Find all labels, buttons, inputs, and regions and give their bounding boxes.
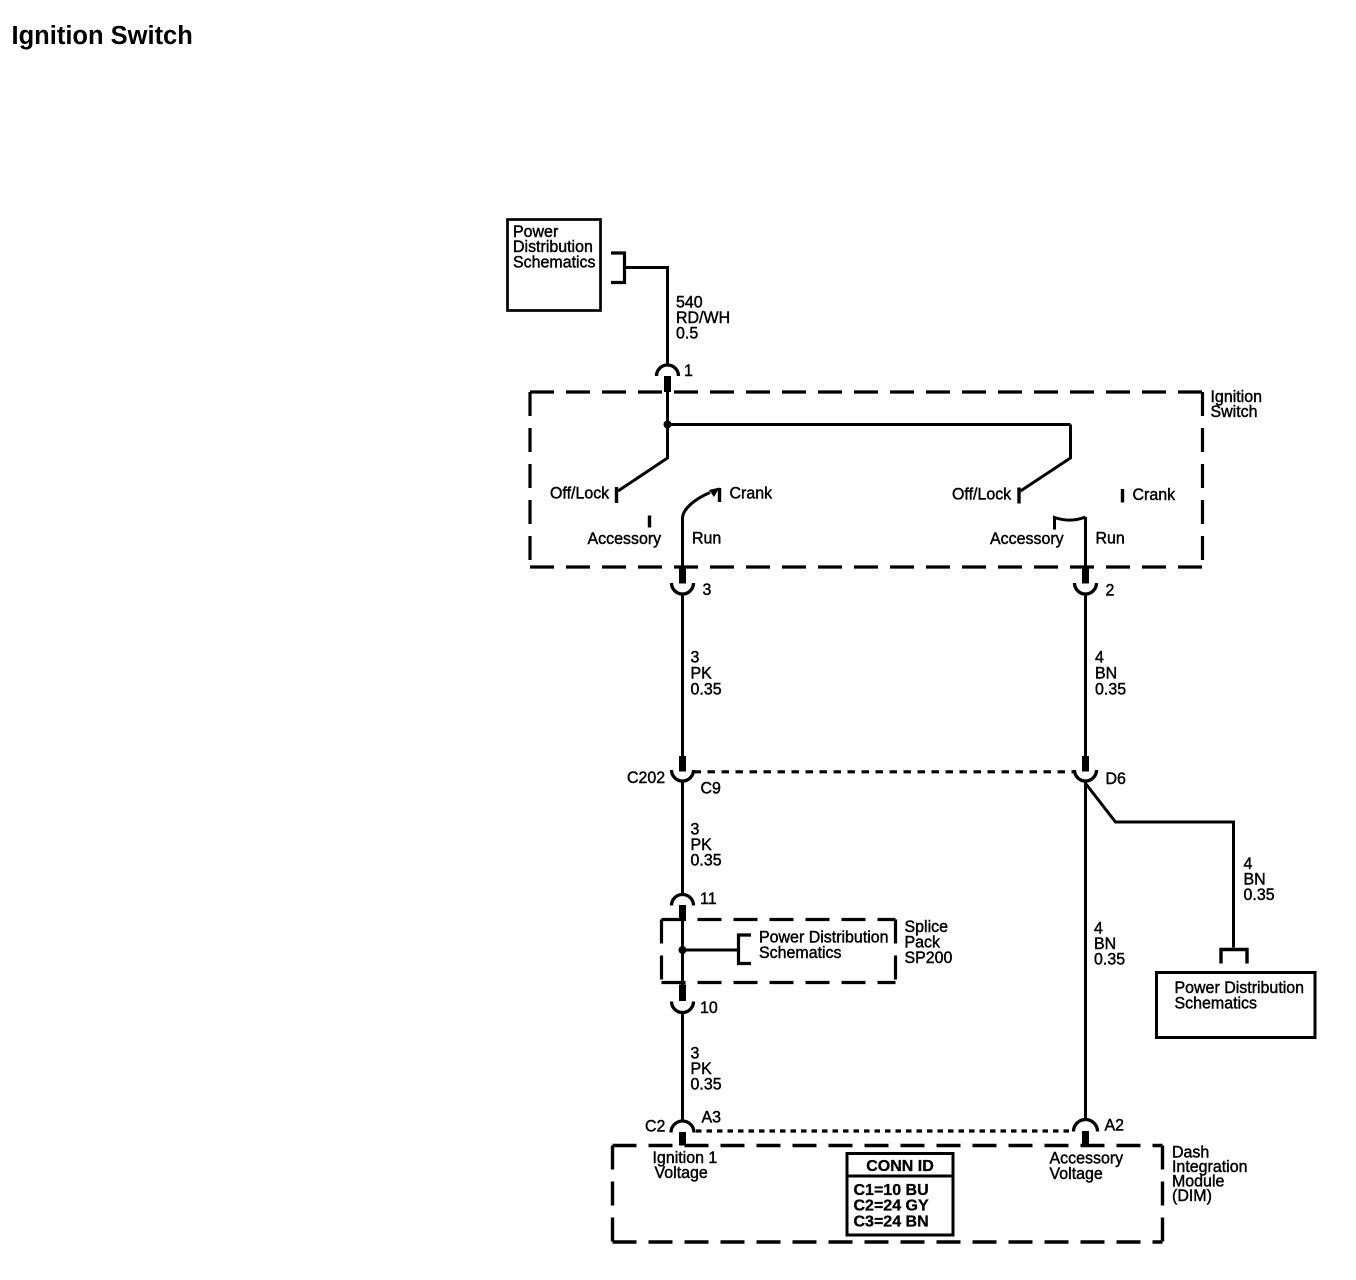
svg-text:Schematics: Schematics [759,944,842,963]
wiper hook toward Accessory (right) [1055,517,1086,530]
off-page connector bracket (splice) [739,935,752,964]
pin D6 male blade [1082,756,1089,772]
wire right half down to right wiper [1021,425,1071,492]
pin A3 male blade [679,1132,686,1146]
value label 3 PK 0.35 (upper) [691,648,722,699]
svg-text:C3=24 BN: C3=24 BN [854,1213,929,1230]
contact Off/Lock (left) [615,487,618,503]
wire 3 PK 0.35 from pin 3 to C202 [681,594,684,756]
connector socket 2 [1075,583,1097,594]
svg-text:Run: Run [692,529,721,548]
wire branch D6 to power distribution (right) [1086,784,1234,948]
connector C202 dotted line [694,770,1075,773]
wire through splice pack [681,921,684,985]
svg-text:C2=24 GY: C2=24 GY [854,1198,929,1215]
svg-text:0.35: 0.35 [1095,680,1126,699]
contact Crank (left) [718,488,721,502]
svg-text:Ignition Switch: Ignition Switch [12,22,193,50]
wire Run terminal to pin 2 [1084,517,1087,568]
wire 3 PK 0.35 from 10 to A3 [681,1013,684,1122]
svg-text:C1=10 BU: C1=10 BU [854,1182,929,1199]
pin A2 male blade [1082,1131,1089,1145]
wire splice to off-page bracket [683,949,739,952]
svg-text:0.35: 0.35 [691,1075,722,1094]
node Ignition 1 Voltage [653,1149,718,1183]
value label 3 PK 0.35 (middle) [691,820,722,870]
node Accessory Voltage [1050,1149,1124,1183]
CONN ID table box [847,1154,953,1236]
svg-text:C202: C202 [627,769,665,788]
value label 3 PK 0.35 (lower) [691,1044,722,1094]
contact Accessory (left) [648,516,651,528]
label Power Distribution Schematics (splice) [759,928,889,962]
svg-text:0.35: 0.35 [691,680,722,699]
connector socket C2 A3 [671,1121,694,1133]
svg-text:(DIM): (DIM) [1172,1187,1212,1206]
svg-text:Switch: Switch [1211,403,1258,422]
connector socket 3 [672,583,694,594]
splice junction node [679,946,687,954]
svg-text:CONN ID: CONN ID [866,1158,934,1175]
value label 4 BN 0.35 (middle) [1094,919,1125,969]
svg-text:Voltage: Voltage [655,1164,708,1183]
pin 3 male blade [679,568,686,584]
svg-text:10: 10 [700,999,718,1018]
svg-text:Accessory: Accessory [588,530,662,549]
svg-text:1: 1 [684,362,693,381]
svg-text:A2: A2 [1105,1116,1125,1135]
box Power Distribution Schematics (right) [1157,973,1316,1038]
wire bus to right switch half [668,423,1071,426]
svg-text:Run: Run [1096,529,1125,548]
label Splice Pack SP200 [905,918,953,968]
svg-text:Schematics: Schematics [513,253,596,272]
svg-text:3: 3 [703,581,712,600]
wire Run terminal to pin 3 [681,517,684,568]
wire 4 BN 0.35 from pin 2 to D6 [1084,594,1087,756]
svg-text:2: 2 [1106,581,1115,600]
wire 4 BN 0.35 from D6 to A2 [1084,781,1087,1121]
svg-text:D6: D6 [1106,770,1126,789]
dash integration module dashed box [613,1146,1163,1243]
off-page connector bracket (top box) [611,253,625,283]
pin 1 male blade [664,376,671,392]
contact Off/Lock (right) [1017,488,1020,504]
value label 540 RD/WH 0.5 [676,293,730,343]
connector socket 1 [657,365,679,376]
svg-text:0.35: 0.35 [691,851,722,870]
pin 11 male blade [679,905,686,921]
svg-text:Accessory: Accessory [990,530,1064,549]
pin 10 male blade [679,985,686,1002]
svg-text:Off/Lock: Off/Lock [952,485,1012,504]
connector socket 10 [672,1002,694,1013]
pin C9 male blade [679,756,686,772]
wire from pin 1 down to left wiper [618,392,668,491]
svg-text:Crank: Crank [1133,486,1176,505]
svg-text:A3: A3 [702,1108,722,1127]
label Ignition Switch (box name) [1211,388,1262,422]
connector socket C202 C9 [672,770,694,781]
wire 540 RD/WH from bracket to pin 1 [625,268,668,366]
svg-text:C9: C9 [701,779,721,798]
svg-text:Crank: Crank [730,484,773,503]
wiper arrowhead (left) [709,488,720,498]
connector socket A2 [1074,1120,1098,1132]
svg-text:C2: C2 [645,1117,665,1136]
ignition switch dashed box [530,392,1203,567]
svg-text:0.5: 0.5 [676,324,698,343]
terminal bracket into power distribution box (right) [1221,950,1247,964]
junction node [664,421,672,429]
wire 3 PK 0.35 from C9 to splice 11 [681,781,684,895]
wiper arc toward Crank (left) [683,493,711,518]
svg-text:Voltage: Voltage [1050,1165,1103,1184]
label Dash Integration Module (DIM) [1172,1143,1247,1205]
box Power Distribution Schematics (top) [508,220,601,311]
label Power Distribution Schematics (top box) [513,223,596,272]
connector socket D6 [1075,770,1097,781]
contact Crank (right) [1121,489,1124,503]
connector socket 11 [672,895,694,906]
connector C2/C3 dotted line [696,1129,1073,1132]
pin 2 male blade [1082,568,1089,584]
label Power Distribution Schematics (right box) [1175,979,1305,1013]
CONN ID table header separator [846,1175,955,1178]
value label 4 BN 0.35 (branch) [1244,855,1275,905]
svg-text:Off/Lock: Off/Lock [550,484,610,503]
splice pack SP200 dashed box [662,920,896,983]
svg-text:11: 11 [700,890,717,909]
svg-text:0.35: 0.35 [1244,886,1275,905]
value label 4 BN 0.35 (upper) [1095,648,1126,699]
svg-text:Schematics: Schematics [1175,994,1258,1013]
svg-text:0.35: 0.35 [1094,950,1125,969]
svg-text:SP200: SP200 [905,949,953,968]
